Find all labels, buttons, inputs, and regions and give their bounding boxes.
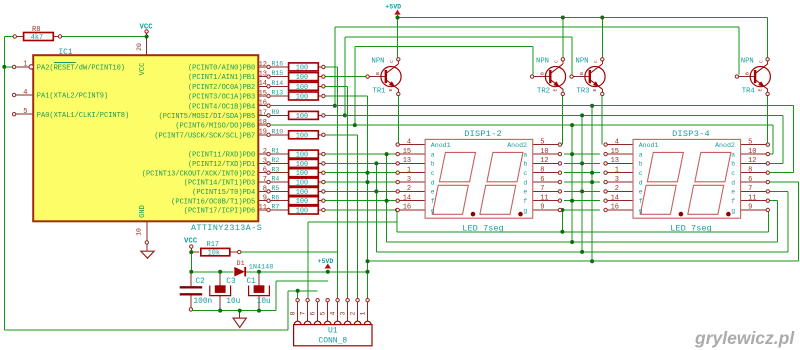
svg-text:c: c — [731, 170, 735, 177]
svg-text:9: 9 — [540, 204, 544, 212]
svg-text:NPN: NPN — [372, 57, 385, 65]
svg-text:a: a — [523, 151, 527, 158]
svg-text:VCC: VCC — [140, 23, 154, 31]
svg-text:10u: 10u — [226, 298, 240, 306]
svg-text:100: 100 — [296, 113, 308, 121]
svg-text:4k7: 4k7 — [31, 34, 43, 42]
svg-text:D1: D1 — [237, 260, 245, 268]
svg-text:f: f — [731, 198, 735, 205]
svg-text:13: 13 — [403, 157, 411, 165]
svg-text:100: 100 — [296, 132, 308, 140]
svg-text:14: 14 — [611, 194, 619, 202]
svg-text:15: 15 — [403, 148, 411, 156]
svg-text:b: b — [431, 161, 435, 168]
svg-text:100: 100 — [296, 84, 308, 92]
svg-text:12: 12 — [748, 157, 756, 165]
svg-text:e: e — [731, 189, 735, 196]
svg-text:C3: C3 — [226, 278, 236, 286]
svg-text:VCC: VCC — [184, 237, 198, 245]
svg-text:C: C — [554, 60, 560, 63]
svg-text:b: b — [523, 161, 527, 168]
svg-text:NPN: NPN — [576, 57, 589, 65]
svg-text:6: 6 — [309, 311, 316, 315]
svg-text:(PCINT12/TXD)PD1: (PCINT12/TXD)PD1 — [188, 161, 255, 169]
svg-text:15: 15 — [611, 148, 619, 156]
svg-text:1: 1 — [615, 166, 619, 174]
svg-text:100: 100 — [296, 161, 308, 169]
svg-text:f: f — [523, 198, 527, 205]
svg-text:R5: R5 — [272, 185, 280, 192]
svg-text:5: 5 — [748, 138, 752, 146]
svg-text:b: b — [639, 161, 643, 168]
svg-text:Anod1: Anod1 — [639, 142, 659, 149]
svg-text:f: f — [639, 198, 643, 205]
svg-text:R16: R16 — [272, 61, 284, 68]
svg-text:R3: R3 — [272, 166, 280, 173]
svg-text:8: 8 — [540, 166, 544, 174]
svg-text:2: 2 — [263, 148, 267, 156]
svg-text:B: B — [540, 72, 546, 75]
svg-text:E: E — [592, 89, 598, 92]
svg-text:c: c — [431, 170, 435, 177]
svg-text:2: 2 — [615, 185, 619, 193]
svg-text:g: g — [431, 207, 435, 214]
svg-text:GND: GND — [139, 205, 147, 218]
svg-text:8: 8 — [748, 166, 752, 174]
svg-text:19: 19 — [259, 129, 267, 137]
svg-text:b: b — [731, 161, 735, 168]
svg-text:IC1: IC1 — [59, 49, 73, 57]
svg-text:(PCINT17/ICPI)PD6: (PCINT17/ICPI)PD6 — [184, 208, 255, 216]
svg-text:C: C — [389, 60, 395, 63]
svg-text:(PCINT13/CKOUT/XCK/INT0)PD2: (PCINT13/CKOUT/XCK/INT0)PD2 — [142, 170, 255, 178]
svg-text:+5VD: +5VD — [318, 258, 334, 265]
svg-text:1: 1 — [359, 311, 366, 315]
svg-text:(PCINT1/AIN1)PB1: (PCINT1/AIN1)PB1 — [188, 74, 255, 82]
svg-text:LED 7seg: LED 7seg — [670, 223, 712, 233]
svg-text:g: g — [523, 207, 527, 214]
svg-text:E: E — [553, 89, 559, 92]
svg-text:100: 100 — [296, 74, 308, 82]
svg-text:100: 100 — [296, 180, 308, 188]
svg-text:9: 9 — [748, 204, 752, 212]
svg-text:NPN: NPN — [536, 57, 549, 65]
svg-text:f: f — [431, 198, 435, 205]
svg-text:e: e — [431, 189, 435, 196]
svg-text:C1: C1 — [247, 278, 257, 286]
svg-text:B: B — [375, 72, 381, 75]
svg-text:100: 100 — [296, 170, 308, 178]
svg-text:5: 5 — [319, 311, 326, 315]
svg-text:R14: R14 — [272, 80, 284, 87]
svg-text:11: 11 — [259, 204, 267, 212]
svg-text:13: 13 — [259, 71, 267, 79]
svg-text:4: 4 — [23, 89, 27, 97]
svg-text:(PCINT3/OC1A)PB3: (PCINT3/OC1A)PB3 — [188, 94, 255, 102]
svg-text:(PCINT15/T0)PD4: (PCINT15/T0)PD4 — [192, 189, 255, 197]
svg-text:6: 6 — [263, 167, 267, 175]
svg-text:d: d — [731, 179, 735, 186]
svg-text:C2: C2 — [196, 278, 206, 286]
svg-text:d: d — [639, 179, 643, 186]
svg-text:R10: R10 — [272, 128, 284, 135]
svg-text:U1: U1 — [328, 327, 338, 336]
svg-text:5: 5 — [23, 108, 27, 116]
svg-text:(PCINT7/USCK/SCK/SCL)PB7: (PCINT7/USCK/SCK/SCL)PB7 — [154, 132, 255, 140]
svg-text:g: g — [639, 207, 643, 214]
svg-text:R9: R9 — [272, 109, 280, 116]
svg-text:8: 8 — [289, 311, 296, 315]
svg-text:6: 6 — [540, 176, 544, 184]
svg-text:c: c — [523, 170, 527, 177]
svg-text:(PCINT4/OC1B)PB4: (PCINT4/OC1B)PB4 — [188, 103, 255, 111]
svg-text:17: 17 — [259, 109, 267, 117]
svg-text:100: 100 — [296, 94, 308, 102]
svg-text:5: 5 — [540, 138, 544, 146]
svg-text:100n: 100n — [194, 298, 213, 306]
svg-text:E: E — [388, 89, 394, 92]
svg-text:7: 7 — [540, 185, 544, 193]
svg-text:TR1: TR1 — [373, 87, 386, 95]
svg-text:11: 11 — [748, 194, 756, 202]
svg-text:grylewicz.pl: grylewicz.pl — [694, 328, 795, 348]
svg-text:1N4148: 1N4148 — [249, 263, 273, 271]
svg-text:PA1(XTAL2/PCINT9): PA1(XTAL2/PCINT9) — [37, 93, 108, 101]
svg-text:4: 4 — [407, 138, 411, 146]
svg-text:6: 6 — [748, 176, 752, 184]
svg-text:100: 100 — [296, 64, 308, 72]
svg-text:R6: R6 — [272, 194, 280, 201]
svg-text:1: 1 — [23, 61, 27, 69]
svg-text:7: 7 — [748, 185, 752, 193]
svg-text:VCC: VCC — [139, 63, 147, 76]
svg-text:e: e — [523, 189, 527, 196]
svg-text:18: 18 — [259, 119, 267, 127]
svg-text:R1: R1 — [272, 148, 280, 155]
svg-text:12: 12 — [540, 157, 548, 165]
svg-text:16: 16 — [259, 100, 267, 108]
svg-text:10u: 10u — [257, 298, 271, 306]
svg-text:10k: 10k — [208, 250, 220, 258]
svg-text:15: 15 — [259, 90, 267, 98]
svg-text:R2: R2 — [272, 157, 280, 164]
svg-text:100: 100 — [296, 152, 308, 160]
svg-text:Anod2: Anod2 — [715, 142, 735, 149]
svg-text:ATTINY2313A-S: ATTINY2313A-S — [191, 224, 262, 233]
svg-text:4: 4 — [615, 138, 619, 146]
svg-text:a: a — [639, 151, 643, 158]
svg-text:d: d — [523, 179, 527, 186]
svg-text:3: 3 — [407, 176, 411, 184]
svg-text:100: 100 — [296, 198, 308, 206]
svg-text:c: c — [639, 170, 643, 177]
svg-text:13: 13 — [611, 157, 619, 165]
svg-text:(PCINT0/AIN0)PB0: (PCINT0/AIN0)PB0 — [188, 65, 255, 73]
svg-text:12: 12 — [259, 61, 267, 69]
svg-text:11: 11 — [540, 194, 548, 202]
svg-text:16: 16 — [611, 204, 619, 212]
svg-text:(PCINT14/INT1)PD3: (PCINT14/INT1)PD3 — [184, 180, 255, 188]
svg-text:10: 10 — [748, 148, 756, 156]
svg-text:R4: R4 — [272, 176, 280, 183]
svg-text:CONN_8: CONN_8 — [318, 336, 347, 345]
svg-text:10: 10 — [136, 228, 143, 236]
svg-text:20: 20 — [136, 43, 143, 51]
svg-text:R13: R13 — [272, 90, 284, 97]
svg-text:DISP1-2: DISP1-2 — [464, 129, 502, 139]
svg-text:+5VD: +5VD — [385, 4, 401, 11]
svg-text:(PCINT16/OC0B/T1)PD5: (PCINT16/OC0B/T1)PD5 — [171, 198, 255, 206]
svg-text:7: 7 — [299, 311, 306, 315]
svg-text:PA2(RESET/dW/PCINT10): PA2(RESET/dW/PCINT10) — [37, 65, 125, 73]
svg-text:3: 3 — [339, 311, 346, 315]
svg-text:Anod1: Anod1 — [431, 142, 451, 149]
svg-text:C: C — [593, 60, 599, 63]
svg-text:C: C — [758, 60, 764, 63]
svg-text:(PCINT2/OC0A)PB2: (PCINT2/OC0A)PB2 — [188, 84, 255, 92]
svg-text:B: B — [744, 72, 750, 75]
svg-text:100: 100 — [296, 189, 308, 197]
svg-text:14: 14 — [403, 194, 411, 202]
svg-text:14: 14 — [259, 80, 267, 88]
svg-text:d: d — [431, 179, 435, 186]
svg-text:g: g — [731, 207, 735, 214]
svg-text:4: 4 — [329, 311, 336, 315]
svg-text:NPN: NPN — [741, 57, 754, 65]
svg-text:7: 7 — [263, 176, 267, 184]
svg-text:R15: R15 — [272, 70, 284, 77]
svg-text:3: 3 — [263, 157, 267, 165]
svg-text:R17: R17 — [207, 241, 220, 249]
svg-text:Anod2: Anod2 — [507, 142, 527, 149]
svg-text:TR2: TR2 — [537, 87, 550, 95]
svg-text:PA0(XTAL1/CLKI/PCINT8): PA0(XTAL1/CLKI/PCINT8) — [37, 112, 129, 120]
svg-text:a: a — [731, 151, 735, 158]
svg-text:B: B — [579, 72, 585, 75]
svg-text:a: a — [431, 151, 435, 158]
svg-text:(PCINT6/MISO/DO)PB6: (PCINT6/MISO/DO)PB6 — [175, 123, 255, 131]
svg-text:(PCINT11/RXD)PD0: (PCINT11/RXD)PD0 — [188, 152, 255, 160]
svg-text:E: E — [757, 89, 763, 92]
svg-text:LED 7seg: LED 7seg — [462, 223, 504, 233]
svg-text:R7: R7 — [272, 204, 280, 211]
svg-text:TR3: TR3 — [577, 87, 590, 95]
svg-text:(PCINT5/MOSI/DI/SDA)PB5: (PCINT5/MOSI/DI/SDA)PB5 — [159, 113, 256, 121]
svg-text:e: e — [639, 189, 643, 196]
svg-text:DISP3-4: DISP3-4 — [672, 129, 710, 139]
svg-text:2: 2 — [349, 311, 356, 315]
svg-text:R8: R8 — [32, 26, 40, 34]
svg-text:16: 16 — [403, 204, 411, 212]
svg-text:2: 2 — [407, 185, 411, 193]
svg-text:8: 8 — [263, 185, 267, 193]
svg-text:9: 9 — [263, 195, 267, 203]
svg-text:100: 100 — [296, 208, 308, 216]
svg-text:3: 3 — [615, 176, 619, 184]
svg-text:10: 10 — [540, 148, 548, 156]
svg-text:TR4: TR4 — [742, 87, 755, 95]
svg-text:1: 1 — [407, 166, 411, 174]
